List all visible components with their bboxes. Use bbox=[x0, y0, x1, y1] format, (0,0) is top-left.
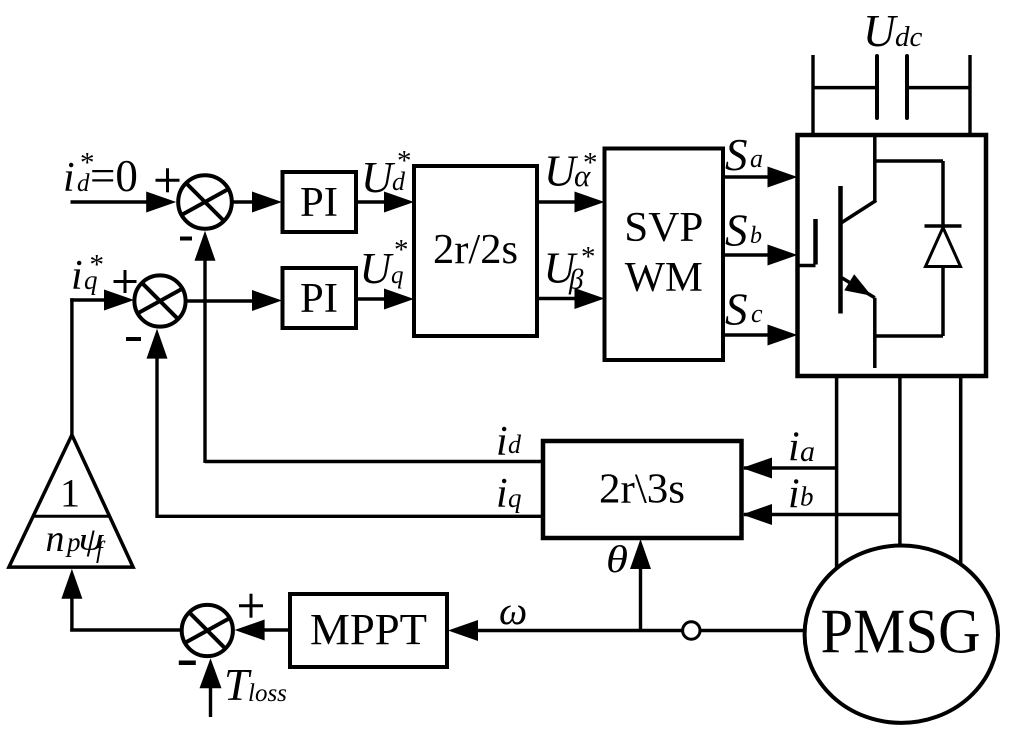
minus sign J1 bbox=[180, 237, 192, 241]
svg-text:*: * bbox=[397, 145, 412, 177]
svg-text:S: S bbox=[725, 206, 748, 256]
arrowhead into PI1 bbox=[252, 192, 282, 213]
svg-text:PMSG: PMSG bbox=[821, 596, 981, 667]
wire phase c bbox=[959, 376, 963, 565]
svg-text:2r\3s: 2r\3s bbox=[599, 467, 685, 513]
label U_beta* bbox=[544, 241, 596, 296]
label theta bbox=[606, 539, 628, 581]
svg-text:*: * bbox=[583, 147, 598, 179]
svg-text:S: S bbox=[725, 130, 748, 180]
svg-text:MPPT: MPPT bbox=[310, 605, 427, 654]
wire i_d feedback bbox=[205, 259, 543, 463]
plus sign J2 bbox=[114, 270, 137, 293]
arrowhead into 2r/2s top bbox=[384, 192, 414, 213]
wire i_q* riser from triangle bbox=[70, 298, 104, 435]
arrowhead omega into MPPT bbox=[448, 620, 478, 641]
plus sign J1 bbox=[156, 168, 180, 192]
text SVPWM bbox=[624, 205, 703, 301]
label omega bbox=[499, 588, 527, 633]
wire J2 to PI2 bbox=[184, 299, 254, 302]
svg-text:i: i bbox=[788, 472, 800, 518]
wire PI1 to 2r/2s bbox=[356, 200, 386, 203]
arrowhead into gain triangle bbox=[61, 569, 82, 599]
IGBT body bar bbox=[838, 186, 843, 314]
wire omega to MPPT bbox=[478, 629, 683, 632]
wire phase b bbox=[898, 376, 902, 547]
svg-text:PI: PI bbox=[300, 276, 338, 322]
svg-text:dc: dc bbox=[895, 21, 923, 53]
wire to capacitor right bbox=[909, 86, 970, 90]
node speed sensor bbox=[683, 622, 700, 639]
text gain denominator n_p psi_f bbox=[46, 518, 107, 564]
svg-text:a: a bbox=[800, 435, 815, 468]
svg-text:b: b bbox=[800, 482, 814, 512]
svg-text:θ: θ bbox=[606, 539, 628, 581]
svg-text:ω: ω bbox=[499, 588, 527, 633]
label i_d*=0 bbox=[63, 147, 138, 201]
text MPPT bbox=[310, 605, 427, 654]
gain block 1/(n_p psi_f) triangle bbox=[9, 435, 133, 567]
arrowhead T_loss into J3 bbox=[200, 658, 222, 688]
text 2r/2s bbox=[433, 227, 518, 273]
text PMSG bbox=[821, 596, 981, 667]
block 2r\3s bbox=[543, 441, 742, 538]
wire i_a tap bbox=[744, 466, 837, 469]
arrowhead into SVPWM bottom bbox=[575, 288, 605, 309]
wire S_c bbox=[723, 333, 769, 336]
label i_d bbox=[496, 419, 522, 465]
wire PI2 to 2r/2s bbox=[356, 297, 386, 300]
label i_q* bbox=[71, 249, 104, 299]
wire diode top link bbox=[875, 161, 943, 226]
svg-text:1: 1 bbox=[60, 471, 80, 516]
wire IGBT emitter diagonal bbox=[841, 277, 875, 298]
wire diode bottom link bbox=[875, 267, 943, 337]
label U_dc bbox=[863, 6, 923, 56]
svg-text:c: c bbox=[751, 299, 763, 328]
arrowhead into PI2 bbox=[252, 290, 282, 311]
block PI2 bbox=[283, 268, 357, 328]
svg-text:2r/2s: 2r/2s bbox=[433, 227, 518, 273]
arrowhead i_a into 2r\3s bbox=[742, 458, 772, 479]
wire T_loss bbox=[209, 686, 212, 717]
svg-text:i: i bbox=[71, 253, 83, 299]
plus sign J3 bbox=[239, 594, 263, 618]
wire IGBT collector bbox=[841, 135, 876, 223]
wire DC bus right stub bbox=[968, 55, 971, 137]
arrowhead into J1 bbox=[146, 192, 176, 213]
svg-text:*: * bbox=[90, 249, 105, 281]
svg-text:WM: WM bbox=[625, 255, 703, 301]
wire J1 to PI1 bbox=[231, 200, 254, 203]
svg-text:d: d bbox=[508, 430, 522, 459]
diode D cathode bar bbox=[925, 224, 962, 228]
svg-text:PI: PI bbox=[300, 180, 338, 226]
block SVPWM bbox=[605, 149, 724, 361]
svg-text:n: n bbox=[46, 518, 65, 560]
diode D triangle bbox=[926, 228, 961, 267]
label S_b bbox=[725, 206, 762, 256]
wire i_d* input bbox=[71, 200, 149, 203]
text PI2 bbox=[300, 276, 338, 322]
wire 2r/2s to SVPWM bottom bbox=[537, 297, 576, 300]
arrowhead i_d into J1 bbox=[195, 231, 216, 261]
minus sign J2 bbox=[126, 337, 141, 341]
wire theta bbox=[639, 567, 642, 632]
svg-text:U: U bbox=[360, 244, 395, 293]
svg-text:S: S bbox=[725, 285, 748, 335]
arrowhead S_c into inverter bbox=[768, 325, 798, 346]
svg-text:U: U bbox=[361, 153, 396, 202]
label T_loss bbox=[224, 660, 287, 710]
block MPPT bbox=[290, 594, 447, 667]
wire 2r/2s to SVPWM top bbox=[537, 200, 576, 203]
label U_d* bbox=[361, 145, 412, 202]
block PI1 bbox=[283, 172, 357, 232]
svg-text:b: b bbox=[750, 223, 762, 249]
text PI1 bbox=[300, 180, 338, 226]
svg-text:i: i bbox=[788, 425, 800, 471]
block 2r/2s bbox=[414, 166, 537, 336]
svg-text:loss: loss bbox=[248, 680, 287, 707]
wire omega from PMSG bbox=[700, 629, 804, 632]
IGBT gate bar bbox=[813, 219, 818, 265]
arrowhead into J2 bbox=[104, 290, 134, 311]
wire i_q feedback bbox=[157, 355, 543, 518]
arrowhead theta into 2r\3s bbox=[630, 539, 651, 569]
capacitor C plate right bbox=[905, 56, 909, 118]
svg-text:i: i bbox=[63, 155, 75, 201]
svg-text:q: q bbox=[508, 483, 522, 513]
svg-text:i: i bbox=[496, 419, 508, 465]
svg-text:q: q bbox=[391, 262, 404, 289]
label i_q bbox=[496, 471, 522, 517]
label U_q* bbox=[360, 234, 409, 293]
minus sign J3 bbox=[179, 661, 196, 666]
svg-text:i: i bbox=[496, 471, 508, 517]
arrowhead S_b into inverter bbox=[768, 245, 798, 266]
svg-text:a: a bbox=[750, 144, 763, 173]
svg-text:=0: =0 bbox=[90, 151, 138, 201]
svg-text:SVP: SVP bbox=[624, 205, 703, 251]
arrowhead IGBT emitter bbox=[844, 274, 871, 296]
text 2r\3s bbox=[599, 467, 685, 513]
summing junction J2 bbox=[134, 275, 185, 326]
arrowhead into 2r/2s bottom bbox=[384, 289, 414, 310]
capacitor C plate left bbox=[875, 56, 879, 118]
arrowhead S_a into inverter bbox=[768, 167, 798, 188]
wire MPPT to J3 bbox=[263, 628, 290, 631]
wire S_a bbox=[723, 175, 769, 178]
label S_c bbox=[725, 285, 763, 335]
label S_a bbox=[725, 130, 763, 180]
wire phase a bbox=[835, 376, 839, 569]
summing junction J1 bbox=[178, 175, 232, 229]
arrowhead into J3 bbox=[235, 620, 265, 641]
wire to capacitor left bbox=[813, 86, 875, 90]
gain block divider bbox=[34, 515, 110, 518]
arrowhead i_q into J2 bbox=[147, 329, 168, 359]
wire i_b tap bbox=[744, 513, 900, 516]
label U_alpha* bbox=[544, 147, 598, 196]
label i_b bbox=[788, 472, 814, 518]
svg-text:*: * bbox=[581, 241, 596, 273]
block inverter bbox=[798, 135, 987, 376]
arrowhead i_b into 2r\3s bbox=[742, 504, 772, 525]
wire IGBT gate lead bbox=[798, 264, 816, 268]
summing junction J3 bbox=[182, 605, 233, 656]
arrowhead into SVPWM top bbox=[575, 192, 605, 213]
wire IGBT emitter bbox=[873, 298, 877, 368]
wire DC bus left stub bbox=[811, 55, 814, 137]
svg-text:*: * bbox=[394, 234, 409, 266]
svg-text:U: U bbox=[863, 6, 898, 56]
text gain numerator 1 bbox=[60, 471, 80, 516]
machine PMSG bbox=[805, 546, 998, 723]
wire J3 to gain triangle bbox=[70, 596, 182, 632]
wire S_b bbox=[723, 253, 769, 256]
label i_a bbox=[788, 425, 815, 471]
